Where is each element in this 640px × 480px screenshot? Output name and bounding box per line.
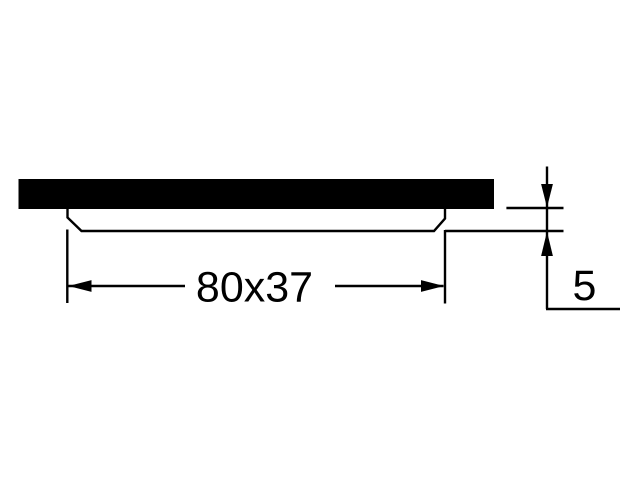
extension line top (5 dimension, flush with bar bottom) (506, 207, 563, 209)
arrowhead right (80x37) (421, 280, 444, 292)
arrowhead down (5) (541, 184, 553, 208)
arrowhead left (80x37) (69, 280, 92, 292)
svg-text:5: 5 (573, 262, 597, 310)
leader line (5) (546, 308, 620, 310)
svg-text:80x37: 80x37 (196, 264, 313, 312)
plate lower profile outline (68, 209, 446, 231)
extension line left (80x37 dimension) (66, 230, 68, 304)
dimension line 80x37 right segment (335, 285, 444, 287)
extension line bottom (5 dimension, flush with profile bottom) (445, 230, 564, 232)
top plate (filled black bar) (19, 179, 495, 209)
dimension line 5 (vertical) (546, 167, 548, 310)
arrowhead up (5) (541, 232, 553, 257)
dimension line 80x37 left segment (69, 285, 186, 287)
extension line right (80x37 dimension) (444, 230, 446, 304)
